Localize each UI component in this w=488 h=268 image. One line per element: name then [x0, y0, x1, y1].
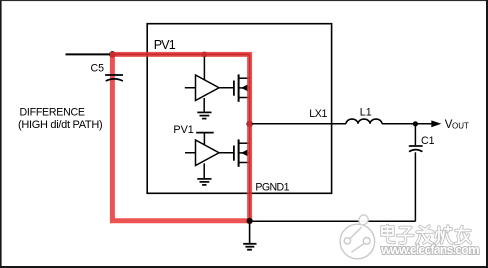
border frame	[0, 0, 2, 268]
capacitor C5	[105, 75, 123, 81]
wire L1 to VOUT	[382, 123, 432, 125]
svg-text:C1: C1	[421, 135, 435, 147]
ground U2	[197, 163, 211, 185]
svg-text:PV1: PV1	[173, 124, 193, 136]
svg-text:www.elecfans.com: www.elecfans.com	[380, 242, 479, 257]
svg-text:PGND1: PGND1	[255, 182, 289, 194]
svg-text:(HIGH di/dt PATH): (HIGH di/dt PATH)	[18, 119, 102, 131]
IC box	[147, 24, 331, 194]
svg-text:PV1: PV1	[154, 38, 176, 52]
wire switching node vertical	[249, 54, 251, 221]
ground main	[243, 221, 256, 249]
node ground junction	[247, 218, 253, 224]
svg-text:LX1: LX1	[309, 108, 327, 120]
svg-text:OUT: OUT	[452, 121, 469, 130]
watermark logo circle	[340, 215, 375, 259]
node driver supply junction	[202, 52, 208, 58]
node LX1 junction	[246, 121, 252, 127]
transistor Q2 (low-side NMOS)	[234, 139, 250, 166]
watermark text 电子发烧友	[382, 226, 471, 244]
node VOUT junction	[413, 121, 418, 126]
ground U1	[197, 98, 211, 119]
highlight red loop (high di/dt path)	[112, 54, 249, 220]
op-amp driver U1 (upper buffer)	[185, 75, 234, 101]
wire PV1 rail	[66, 53, 250, 55]
transistor Q1 (high-side NMOS)	[234, 74, 250, 101]
supply bar PV1 (lower driver)	[196, 133, 214, 145]
op-amp driver U2 (lower buffer)	[185, 140, 233, 166]
arrow VOUT	[431, 120, 441, 127]
inductor L1	[346, 119, 382, 124]
svg-text:DIFFERENCE: DIFFERENCE	[20, 107, 85, 119]
svg-text:L1: L1	[360, 107, 372, 119]
wire driver U1 supply pin	[203, 54, 205, 80]
svg-text:C5: C5	[91, 62, 105, 74]
capacitor C1	[409, 126, 423, 221]
node PV1 junction	[109, 51, 116, 58]
wire ground return	[250, 220, 416, 222]
wire LX1	[250, 123, 346, 125]
